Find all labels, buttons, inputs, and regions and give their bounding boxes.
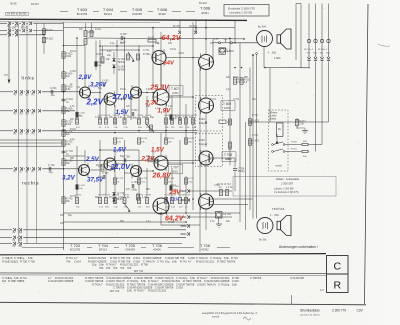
svg-text:R 725: R 725 [75,195,82,197]
svg-text:C 70x: C 70x [143,50,150,52]
svg-text:528: 528 [69,279,74,283]
svg-text:R 62x: R 62x [233,77,240,79]
svg-text:W 5: W 5 [182,226,187,228]
svg-text:Leiter-: Leiter- [271,115,278,118]
svg-text:521: 521 [134,263,139,267]
svg-text:10µ: 10µ [51,94,56,97]
svg-text:BC107B: BC107B [77,12,88,16]
svg-text:rechts: rechts [276,165,283,168]
svg-text:2 300 770: 2 300 770 [332,309,346,313]
svg-text:0,1µ: 0,1µ [146,221,151,223]
svg-text:Relais-: Relais- [271,113,278,115]
svg-text:T 607: T 607 [171,87,179,91]
svg-text:W 1: W 1 [182,234,187,236]
svg-text:4,7: 4,7 [141,289,145,293]
svg-text:BC167: BC167 [31,2,39,6]
svg-text:C3V: C3V [357,309,364,313]
svg-text:C: C [334,260,342,272]
svg-text:T 706: T 706 [152,244,162,248]
svg-text:C 605: C 605 [79,185,86,187]
svg-text:R 628: R 628 [297,276,304,280]
svg-text:4,7k: 4,7k [211,282,217,286]
svg-text:R 70x: R 70x [210,99,217,101]
svg-text:40362: 40362 [224,107,231,110]
svg-text:C 70x: C 70x [233,99,240,101]
svg-text:C 60x: C 60x [118,197,125,199]
svg-text:C 701: C 701 [48,164,55,167]
svg-text:T 705: T 705 [125,244,135,248]
svg-text:40361: 40361 [201,11,209,15]
svg-text:607 721: 607 721 [134,269,144,273]
svg-text:10µ: 10µ [225,282,230,286]
svg-text:4,7: 4,7 [188,259,192,263]
svg-text:R 725: R 725 [141,178,148,180]
svg-text:(zu Endstufe 2 300 075): (zu Endstufe 2 300 075) [274,191,299,194]
svg-text:C 741: C 741 [157,259,164,263]
svg-text:R 619: R 619 [141,138,148,140]
svg-text:Bu 50x: Bu 50x [259,239,267,242]
svg-text:R 741: R 741 [180,259,187,263]
svg-text:R 70x: R 70x [70,196,77,198]
svg-text:R 616: R 616 [75,115,82,117]
svg-text:Bu 601: Bu 601 [19,13,27,16]
svg-text:10µ: 10µ [92,263,97,267]
svg-text:BC140: BC140 [199,1,207,5]
svg-text:607 721: 607 721 [110,289,120,293]
svg-text:3,3k: 3,3k [299,123,304,126]
svg-text:4 ... 60Ω: 4 ... 60Ω [268,53,277,55]
svg-text:64,2V: 64,2V [162,33,182,42]
svg-text:BF114: BF114 [99,247,107,251]
svg-text:T 608: T 608 [200,6,211,11]
svg-text:R 62x: R 62x [168,222,175,224]
svg-text:Körper: Körper [199,142,207,146]
svg-text:4,7: 4,7 [99,282,103,286]
svg-text:C 60x: C 60x [214,185,221,187]
svg-text:50µ: 50µ [98,88,103,90]
svg-text:40406: 40406 [153,247,161,251]
svg-text:Relais - Leiterplatte: Relais - Leiterplatte [276,177,300,181]
svg-text:R 706: R 706 [141,263,148,267]
svg-text:C 70x: C 70x [252,135,259,137]
svg-text:10µ: 10µ [49,171,54,174]
svg-text:R 62x: R 62x [95,29,102,31]
svg-text:C 704: C 704 [131,181,138,184]
svg-text:C 60x: C 60x [178,53,185,55]
svg-text:703: 703 [127,266,132,270]
svg-text:R 713: R 713 [225,184,232,186]
svg-text:2 300 587: 2 300 587 [281,182,293,186]
svg-text:BF516: BF516 [117,199,124,201]
svg-text:R 625: R 625 [188,138,195,140]
svg-text:29V: 29V [169,189,182,196]
svg-text:2N4058: 2N4058 [132,12,142,16]
svg-text:R 61x: R 61x [109,197,116,199]
svg-text:100k: 100k [66,55,72,58]
svg-text:R 611: R 611 [291,149,297,151]
svg-text:W 2 Bu 2: W 2 Bu 2 [304,49,314,51]
svg-text:ausgeführt 21.2.69 geprüft: ausgeführt 21.2.69 geprüft 21.2.69 Änder… [202,311,257,315]
svg-text:706: 706 [231,259,236,263]
svg-text:R 724: R 724 [117,178,124,180]
svg-text:W 4 Bu 4: W 4 Bu 4 [318,49,328,51]
svg-text:Leiterplatte 2 300 595: Leiterplatte 2 300 595 [229,12,253,15]
svg-text:C 60x: C 60x [70,71,77,73]
svg-text:64V: 64V [164,61,175,67]
svg-text:1000µ: 1000µ [238,170,246,173]
svg-text:708: 708 [169,286,174,290]
svg-text:50µ: 50µ [150,117,155,119]
svg-text:W 4: W 4 [182,191,187,193]
svg-text:R 618: R 618 [46,37,53,40]
svg-text:R 62x: R 62x [70,129,77,131]
svg-text:680µ: 680µ [132,116,138,119]
svg-text:R 70x: R 70x [252,115,259,117]
svg-text:40361: 40361 [172,92,179,95]
svg-text:H 8: H 8 [4,74,8,77]
svg-text:521: 521 [162,289,167,293]
svg-text:0,6 V: 0,6 V [155,108,161,110]
svg-text:R 731: R 731 [145,195,152,197]
svg-text:Stromlaufplan: Stromlaufplan [300,309,320,313]
svg-text:(ab Gerät Nr 18001): (ab Gerät Nr 18001) [300,313,320,316]
svg-text:verteilt: verteilt [212,315,219,318]
svg-text:R 618: R 618 [117,138,124,140]
svg-text:5,6k: 5,6k [172,259,178,263]
svg-text:521: 521 [14,259,19,263]
svg-text:40362: 40362 [201,247,209,251]
svg-text:La 601: La 601 [227,50,235,53]
svg-text:Lötseite: 2 300 586: Lötseite: 2 300 586 [274,188,294,191]
svg-text:R 612: R 612 [96,54,103,56]
svg-text:706: 706 [120,286,125,290]
svg-text:Gn 609: Gn 609 [7,13,16,16]
svg-text:2,5V: 2,5V [85,156,100,163]
svg-text:680µ: 680µ [132,188,138,191]
svg-text:521: 521 [2,279,7,283]
svg-text:R 61x: R 61x [170,185,177,187]
svg-text:06.98: 06.98 [10,1,17,5]
svg-text:6,8k: 6,8k [66,143,71,146]
svg-text:1,6V: 1,6V [113,147,127,154]
svg-text:C 618: C 618 [176,286,183,290]
svg-text:0,1µ: 0,1µ [226,89,231,91]
svg-text:C 604: C 604 [131,109,138,112]
svg-text:10µ: 10µ [165,259,170,263]
svg-text:BF508: BF508 [118,62,125,64]
svg-text:rechts: rechts [272,207,285,211]
svg-text:T 609: T 609 [223,102,231,106]
svg-text:50µ: 50µ [120,156,125,158]
svg-text:2,2V: 2,2V [86,98,104,107]
svg-text:C 708: C 708 [123,156,130,159]
svg-text:R 6xx: R 6xx [124,173,131,175]
svg-text:Bu 604: Bu 604 [258,26,267,29]
svg-text:C 706: C 706 [28,259,35,263]
svg-text:0,5: 0,5 [244,81,248,84]
svg-text:3,2V: 3,2V [62,175,76,182]
svg-text:706: 706 [20,279,25,283]
svg-text:21,0V: 21,0V [110,162,132,171]
svg-text:27,0V: 27,0V [112,92,134,101]
svg-text:26,8V: 26,8V [152,172,173,179]
svg-text:C 614: C 614 [74,259,81,263]
svg-text:50µ: 50µ [68,215,73,217]
svg-text:C 606: C 606 [120,33,127,36]
svg-text:25,3V: 25,3V [150,85,171,92]
svg-text:Gr 603: Gr 603 [118,58,126,61]
svg-text:0,1µ: 0,1µ [110,43,115,45]
svg-text:703: 703 [99,266,104,270]
svg-text:T 703: T 703 [70,244,80,248]
svg-text:703: 703 [113,266,118,270]
svg-text:W 3: W 3 [182,200,187,202]
svg-text:6,8k: 6,8k [66,88,71,91]
svg-text:R 624: R 624 [168,138,175,140]
svg-text:rechts: rechts [22,181,39,187]
svg-text:L 604: L 604 [274,56,281,60]
svg-text:521: 521 [210,259,215,263]
svg-text:Gr 604: Gr 604 [118,66,126,69]
svg-text:R 615: R 615 [46,29,53,32]
svg-text:T 707: T 707 [171,165,179,169]
svg-text:1,5V: 1,5V [116,109,130,116]
svg-text:40361: 40361 [172,170,179,173]
svg-text:2N4058: 2N4058 [125,247,135,251]
svg-text:R 719: R 719 [184,195,191,197]
svg-text:C 601: C 601 [50,87,57,90]
svg-text:Änderungen vorbehalten !: Änderungen vorbehalten ! [279,245,318,249]
svg-text:C 707: C 707 [102,172,109,175]
svg-text:R 70x: R 70x [143,54,150,56]
svg-text:R 613: R 613 [148,38,155,40]
svg-text:100k: 100k [66,123,72,126]
svg-text:C 605: C 605 [79,113,86,115]
svg-text:T 708: T 708 [224,153,232,157]
svg-text:R: R [334,279,342,291]
svg-text:703: 703 [120,266,125,270]
svg-text:BF114: BF114 [104,12,112,16]
svg-text:platte: platte [271,118,277,121]
svg-text:0,1µ: 0,1µ [70,139,75,141]
svg-text:Endstufe 2 300 075: Endstufe 2 300 075 [228,6,255,10]
svg-text:2,8V: 2,8V [78,74,93,81]
svg-text:R 706: R 706 [20,259,27,263]
svg-text:5,6k: 5,6k [232,282,238,286]
svg-text:R 61x: R 61x [170,49,177,51]
svg-text:40406: 40406 [158,12,166,16]
svg-text:703: 703 [106,266,111,270]
svg-text:R 6xx: R 6xx [175,117,182,119]
svg-text:R 727: R 727 [188,178,195,180]
svg-text:5,6k: 5,6k [127,289,133,293]
svg-text:706: 706 [66,259,71,263]
svg-text:R 61x: R 61x [70,51,77,53]
svg-text:T 708: T 708 [200,244,210,248]
svg-text:BF508: BF508 [118,70,125,72]
svg-text:4,7k: 4,7k [150,259,156,263]
svg-text:1,5V: 1,5V [151,147,165,154]
svg-text:T 704: T 704 [98,244,108,248]
svg-text:links: links [22,76,35,82]
svg-text:4 ... 60Ω: 4 ... 60Ω [270,215,279,217]
svg-text:1,1V: 1,1V [170,196,180,201]
svg-text:708: 708 [190,282,195,286]
svg-text:R 610: R 610 [291,142,298,144]
svg-text:BC107B: BC107B [70,247,80,251]
svg-text:La 702: La 702 [224,213,232,216]
svg-text:C 70x: C 70x [95,117,102,119]
svg-text:Gr 715: Gr 715 [117,192,125,195]
svg-text:R 6xx: R 6xx [120,89,127,91]
